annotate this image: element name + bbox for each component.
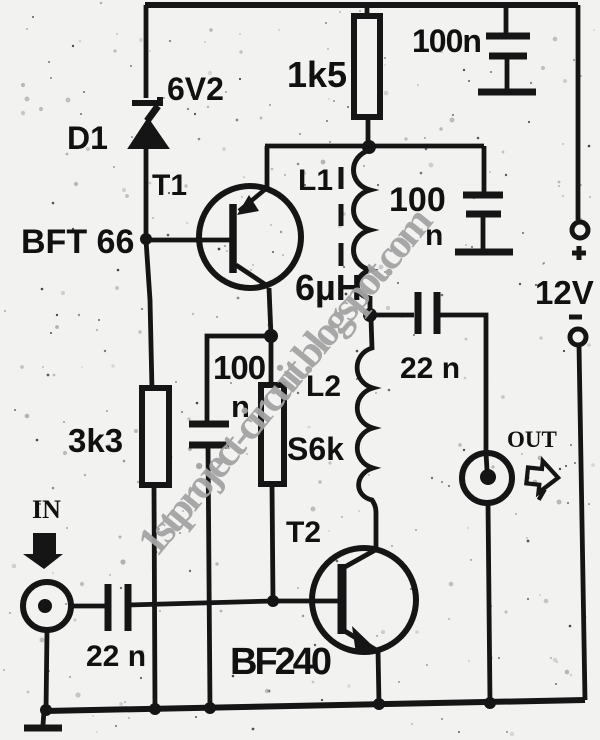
OUT arrow — [525, 460, 560, 502]
capacitor 22n input — [108, 584, 128, 631]
wire left branch top (rail to zener) — [144, 5, 149, 98]
IN arrow — [23, 533, 63, 569]
svg-text:BFT 66: BFT 66 — [21, 223, 134, 261]
svg-text:1k5: 1k5 — [287, 54, 347, 95]
wire IN ground — [46, 630, 47, 711]
capacitor 100n mid-right — [455, 146, 513, 252]
wire T1 emitter down — [269, 288, 271, 336]
node junction dot 1k5/L1 — [362, 140, 376, 154]
zener diode D1 — [129, 97, 168, 148]
IN terminal — [23, 582, 71, 630]
wire emitter node left bracket — [207, 336, 271, 421]
wire T1 collector up — [265, 146, 270, 190]
inductor L1 — [354, 150, 371, 298]
ground — [24, 711, 62, 728]
wire - terminal to bottom rail — [579, 345, 585, 700]
node dot OUT/rail — [484, 697, 496, 709]
svg-text:IN: IN — [32, 495, 61, 524]
svg-text:T2: T2 — [286, 516, 321, 549]
node base T1 junction dot — [140, 233, 152, 245]
resistor 3k3 — [142, 388, 169, 485]
12V minus sign — [569, 315, 582, 320]
svg-text:22 n: 22 n — [86, 640, 146, 673]
OUT terminal — [462, 453, 512, 703]
12V - terminal circle — [570, 329, 586, 345]
wire T2 emitter to bottom rail — [378, 650, 379, 704]
node junction dot 56k/base — [267, 595, 279, 607]
svg-text:100n: 100n — [412, 23, 481, 59]
svg-text:S6k: S6k — [287, 431, 344, 467]
wire T1 base — [146, 238, 233, 243]
wire 1k5 leads — [365, 5, 370, 16]
wire bottom rail — [45, 700, 585, 711]
wire zener to T1 base junction to 3k3 — [146, 148, 152, 390]
node dot 100n/rail — [204, 702, 216, 714]
svg-text:L1: L1 — [298, 164, 333, 197]
svg-text:D1: D1 — [67, 120, 108, 156]
node dot bottom-left — [40, 704, 52, 716]
transistor T2 — [312, 548, 416, 654]
capacitor 22n coupling right — [370, 292, 486, 453]
node junction dot L1/L2/22n — [363, 308, 377, 322]
wire 3k3 to bottom rail — [154, 487, 155, 710]
svg-text:6V2: 6V2 — [167, 71, 224, 107]
resistor 56k — [261, 385, 284, 484]
transistor T1 — [199, 186, 301, 288]
12V + terminal circle — [572, 222, 588, 238]
node T1 emitter junction dot — [264, 329, 278, 343]
resistor 1k5 — [354, 16, 380, 117]
wire IN to cap — [71, 604, 105, 609]
wire cap to T2 base — [128, 601, 273, 605]
svg-text:T1: T1 — [152, 169, 187, 202]
wire right border top to + terminal — [576, 5, 581, 220]
12V plus sign — [572, 246, 586, 260]
wire top rail — [145, 2, 578, 8]
wire L1 bottom to node — [368, 296, 373, 318]
inductor L2 — [357, 318, 376, 549]
node dot 3k3/rail — [149, 703, 161, 715]
capacitor 100n mid-left — [189, 424, 229, 708]
wire 56k leads — [269, 336, 274, 385]
svg-text:22 n: 22 n — [400, 352, 460, 385]
wire collector rail y146 — [265, 144, 484, 149]
capacitor 100n top-right — [478, 5, 536, 92]
svg-text:3k3: 3k3 — [68, 422, 123, 459]
svg-text:OUT: OUT — [507, 427, 557, 452]
node dot T2/rail — [373, 698, 385, 710]
svg-text:12V: 12V — [535, 274, 594, 311]
svg-text:BF240: BF240 — [230, 641, 331, 683]
L1 core dashed line — [339, 167, 344, 266]
wire T2 base from junction — [273, 599, 341, 604]
